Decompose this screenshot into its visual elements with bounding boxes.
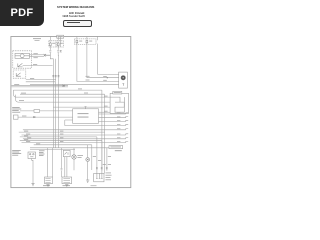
hot-at-all-times label [33,37,41,40]
vertical drop x52.6 [52,148,54,177]
amp to ladder wire y114 [99,113,129,114]
bus wire y149.4 [30,148,75,150]
wire drop from top bus to fuse F2 [57,37,59,41]
wire label blower 2 [103,79,107,82]
wire node x97.7 to blower motor [98,44,107,75]
thermo wire label [22,115,26,118]
wire label SW1 [33,63,37,66]
diagram frame [11,37,131,188]
wire x87.7 down to ground [87,145,89,180]
wire compressor A to splice [30,54,44,56]
legend text block upper left [12,107,21,113]
ground G3 [46,184,49,186]
wire vertical bus x52.6 [50,47,53,148]
wire harness line y94.2 [20,93,105,95]
resistor feed wire y96.4 [53,106,110,108]
wire drop at node x60.6 [60,37,62,48]
wire fan down [73,148,75,170]
wire bundle lower [16,95,111,103]
connector marks on verticals [96,167,108,168]
wire label blower feed [103,75,107,78]
fuse F4 element [86,39,88,44]
wire blower ground side [30,83,119,85]
fuse F3 label [79,40,82,43]
blower resistor label [114,91,121,94]
ground G4 [65,184,68,186]
wire tick marks into motor [107,77,108,78]
wire into motor lower [77,74,119,81]
wire relay to ground [32,159,33,184]
wire vertical bus x55.6 [55,59,57,148]
inline relay box on bus [63,150,70,156]
blower motor box [119,72,128,88]
ground G2 [86,180,89,182]
fuse block dashed box [74,39,96,45]
fuse F4 label [89,40,92,43]
bus wire y147.8 [30,147,109,149]
fuse F2 element [57,42,59,47]
wire label y94.2 [21,92,26,95]
wire SW2 label [30,77,34,80]
wire label compressor B [33,56,37,59]
title line 2 [0,12,153,15]
blower resistor label box [113,91,122,94]
wire vertical bus x58.5 [57,47,59,148]
relay box mark [65,152,68,155]
vertical x91.8 [91,145,93,170]
fuse F3 element [76,39,78,44]
blower motor terminal [122,84,124,86]
switch label specks [106,173,112,181]
amp to ladder wire y121.5 [99,120,129,121]
compressor clutch coil circle [20,54,24,58]
blower resistor box [110,93,129,113]
long wire y86.9 [12,86,69,88]
pressure switch SW2 [16,73,21,76]
wire from fuse F3 down to blower feed [77,44,107,81]
PDF badge [0,0,44,26]
dense band wire 6 [22,141,129,142]
wire labels right ladder [104,95,108,98]
amplifier top pin [85,107,87,109]
switch pins inside box [96,173,103,178]
vertical drop x47.7 [47,148,49,177]
dense band wire 5 [20,140,102,142]
wire from fuse F4 down [87,44,119,77]
connector C101 marks under fuses [49,50,62,52]
dense band wire 3 [20,136,97,138]
vertical x64.8 [64,157,66,177]
wire drop at node x97.7 [97,37,99,41]
inline connector box on wire [34,110,40,113]
title line 3 [0,15,150,18]
connector mark x61.5 [61,169,63,170]
header button label [67,22,80,24]
A/C switch connector box [94,173,104,181]
compressor clutch wire through coil [15,55,29,57]
wire label bundle b [84,92,88,95]
wire label compressor A [33,52,37,55]
connector label text [110,146,121,149]
ladder wire y129.5 [23,129,128,130]
ladder wire y125.5 [65,120,128,126]
fuse F2 box [57,41,64,47]
connector box B2 marks [63,178,70,182]
title line 1 [0,6,152,9]
relay K1 contacts [30,154,31,155]
amplifier label line1 [78,112,89,115]
connector box B2 [62,177,72,184]
fuse F1 box [49,41,56,47]
connector box B1 marks [45,178,50,182]
wire drop to fuse F3 [76,37,78,39]
vertical x106.8 [106,148,108,171]
top bus label box [57,35,64,38]
pressure switch dashed box [13,70,26,78]
diode mark [87,159,89,161]
wire label y85.7 [14,83,19,86]
fuse F1 element [49,42,51,47]
legend labels mid [39,150,45,156]
dense band wire 1 [19,131,105,133]
vertical x96.9 [96,137,98,174]
wire drop to fuse F4 [86,37,88,39]
long dashed wire y85.7 [12,85,69,87]
vertical x66.9 [66,157,68,177]
wire harness line y90 [13,89,102,91]
fuse F2 label [60,42,63,45]
dense band wire 2 [22,134,129,135]
wire label bundle a [78,88,82,91]
wire bundle hook left [13,90,110,97]
inline connector on y85.7 [63,85,65,87]
ground G1 [31,184,34,186]
thermo switch wire [18,116,73,118]
header button [63,20,92,27]
wire tick labels on verticals [93,156,111,165]
switch sublabel below [91,184,97,187]
vertical drop x61.5 [61,148,63,177]
ladder labels right [117,112,120,115]
PDF badge label [0,0,44,26]
dense band wire 4 [23,138,128,139]
blower motor hub [123,77,124,78]
wire vertical x60.7 lower [60,50,62,52]
amplifier label line2 [78,116,89,119]
wire label y101.7 [19,99,24,102]
condenser fan circle component [72,155,76,159]
thermo switch component [13,115,18,119]
connector sublabel [115,150,122,151]
compressor clutch inner box [15,53,30,58]
pressure switch SW1 [18,63,23,67]
box B2 sublabel [63,184,71,187]
wire compressor B to splice [30,56,44,58]
box B1 sublabel [43,184,50,187]
A/C amplifier box [73,109,99,124]
legend text block lower left [12,150,21,156]
dense band wire 7 [34,144,92,146]
dense band labels [24,131,63,145]
fuse F1 label [52,42,55,45]
fan label [77,154,83,157]
connector marks on buses [52,75,59,77]
resistor feed wire y105.1 [99,111,111,113]
wire compressor relay feed [26,81,55,83]
wire evaporator to amplifier [20,110,73,112]
wire switch SW2 out [26,79,56,81]
wire label motor feed mid [86,75,90,78]
resistor network steps [110,97,124,112]
vertical x104.6 from harness corner [104,94,106,173]
relay K1 box [28,152,36,159]
top bus label text [58,35,63,38]
wire drop from top bus to fuse F1 [49,37,51,41]
diode component circle [86,158,90,162]
amp to ladder wire y117.7 [99,117,129,118]
A/C compressor dashed box [13,51,32,68]
wire switch SW1 to bus [23,65,53,67]
vertical x101.9 from harness corner [101,90,103,171]
fan symbol cross [73,156,76,159]
blower motor M1 symbol [121,76,125,80]
thermo wire connector [33,116,35,118]
vertical x101.7 [101,141,103,174]
connector box B1 [45,177,53,184]
connector label box right [109,146,123,149]
splice connector X1 [44,54,51,56]
